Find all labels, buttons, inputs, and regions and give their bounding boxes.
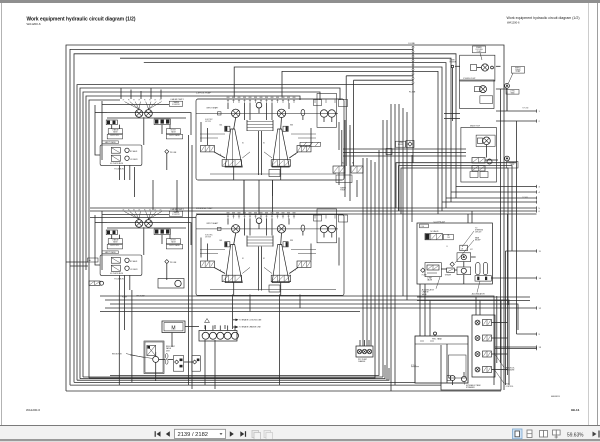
wire cluster left stub 1 <box>66 261 88 263</box>
node P3 group1 <box>165 150 169 154</box>
valve unit bottom 1 <box>173 356 183 372</box>
label safety valve group2 <box>102 251 118 254</box>
wire top bus 2 <box>70 49 413 385</box>
wire drive shaft hoist <box>196 112 338 114</box>
wire bottom bus 1 <box>66 390 501 392</box>
wire mid vertical 2 <box>366 158 368 346</box>
svg-text:59.63%: 59.63% <box>567 432 584 438</box>
wire low bus 1 <box>100 296 494 385</box>
pump bottom small <box>450 376 455 381</box>
valve block sub group2 <box>100 255 142 275</box>
pump fan A steering <box>320 225 327 232</box>
wire top bus 1 <box>66 45 504 391</box>
toolbar last page button <box>240 431 246 437</box>
wire emerg down <box>506 92 508 112</box>
wire rb3 feed 2 <box>343 152 466 154</box>
wire right vert 5 <box>507 214 509 375</box>
wire right tick 6 <box>442 201 537 203</box>
toolbar next page button <box>230 431 234 437</box>
solenoid valve left group2 <box>106 230 117 235</box>
wire col out 5 <box>413 71 438 214</box>
wire low bus 2 <box>105 300 509 385</box>
wire right vert 8 <box>505 251 507 385</box>
wire right tick 7 <box>506 250 537 252</box>
label box left 2 group2 <box>107 244 122 249</box>
wire rail upper group1 <box>107 112 186 114</box>
spool right hoist <box>297 146 311 152</box>
block brake cooling <box>460 55 495 81</box>
wire col out 2 <box>413 58 451 202</box>
valve filter spool <box>147 345 156 355</box>
zoom dropdown partial <box>593 432 597 437</box>
spool left steering <box>201 261 215 267</box>
filter circle <box>153 356 159 362</box>
wire fitting risers <box>120 88 122 99</box>
wire steer drop 4 <box>299 295 301 309</box>
wire tick line B <box>90 210 537 212</box>
node diamond ps1 <box>450 262 454 266</box>
wire gap vert 1 <box>152 180 154 210</box>
wire bottom frame <box>441 300 501 390</box>
wire col out 1 <box>413 54 456 198</box>
box center bottom steering <box>269 285 280 292</box>
wire unit3 <box>485 159 498 161</box>
pump fan B steering <box>328 225 335 232</box>
label to hyd tank <box>506 90 519 95</box>
wire bottom bus 3 <box>74 381 415 383</box>
pump housing tall steering <box>317 209 337 243</box>
valve cyl2 hoist <box>283 126 288 131</box>
wire left stair 4 <box>89 100 120 378</box>
wire steer drop 1 <box>232 295 234 330</box>
frame PS-617 <box>417 223 492 284</box>
wire center ladder steering <box>246 236 248 247</box>
wire bottom bus 8 <box>89 360 375 378</box>
valve bottom B hoist <box>271 160 290 167</box>
valve block sub group1 <box>100 145 142 165</box>
accumulator base <box>475 276 491 282</box>
box LS <box>460 245 468 251</box>
pump steering unit <box>480 86 487 93</box>
block pump unit 3 <box>461 128 497 183</box>
tank hydraulic <box>415 336 468 383</box>
cylinder 1 steering <box>225 245 242 283</box>
pump emergency <box>505 83 510 88</box>
wire right vert 7 <box>496 296 498 363</box>
toolbar first page button <box>155 431 161 437</box>
fitting row steering <box>227 215 229 219</box>
wire ps internals <box>441 268 446 270</box>
wire group1 extra drop <box>134 167 136 197</box>
wire vert x350 <box>349 125 351 201</box>
wire stack unit 1 <box>492 322 508 324</box>
frame section hoist <box>196 99 344 180</box>
wire rb1 out <box>496 65 501 67</box>
solenoid valve right group2 <box>154 229 170 235</box>
pump stack unit 2 <box>475 336 480 341</box>
label left of cluster E <box>88 258 99 262</box>
wire tick line A <box>90 207 537 209</box>
box below twin <box>336 175 352 183</box>
valve nc <box>425 234 442 240</box>
pump main B steering <box>277 225 285 233</box>
view mode single page selected <box>513 429 523 439</box>
wire right tick 8 <box>491 277 537 279</box>
pump small top hoist <box>256 102 262 108</box>
view mode continuous <box>527 430 532 438</box>
wire vert x407 <box>406 112 408 300</box>
wire right vert 4 <box>500 89 502 363</box>
valve bottom A steering <box>222 275 241 282</box>
wire right tick 2 <box>496 120 537 122</box>
pump P-A group2 <box>135 220 143 228</box>
solenoid valve right group1 <box>154 119 170 125</box>
box center bottom hoist <box>269 170 280 177</box>
wire stack unit 4 <box>492 369 508 371</box>
wire jog 2 <box>399 166 513 251</box>
wire right tick 9 <box>517 333 537 335</box>
wire cluster left stub 2 <box>70 265 88 267</box>
wire bottom bus 7 <box>110 362 379 375</box>
valve bottom A hoist <box>222 160 241 167</box>
valve twin spool A <box>333 166 345 173</box>
toolbar prev page button <box>166 431 170 437</box>
wire filter <box>130 355 153 359</box>
pump main A steering <box>232 225 240 233</box>
wire center ladder hoist <box>246 120 248 131</box>
wire top bus 5 <box>144 62 413 64</box>
wire low bus extra 1 <box>100 311 360 313</box>
solenoid valve left group1 <box>106 120 117 125</box>
valve left of cluster E <box>89 281 100 285</box>
label box right 1 group2 <box>166 239 180 244</box>
label box left 1 group2 <box>108 239 122 244</box>
wire bottom bus 4 <box>77 368 389 380</box>
label brake cooling pump <box>473 46 486 53</box>
wire low tick 12 <box>105 307 537 309</box>
pump brake cooling <box>481 64 488 71</box>
label box right 2 group1 <box>166 134 182 139</box>
pump P-B group2 <box>145 220 153 228</box>
wire vert x345 <box>344 120 346 197</box>
valve cyl1 hoist <box>225 126 230 131</box>
wire top bus 8 <box>346 75 413 77</box>
wire mid bus 1 <box>90 217 196 219</box>
manifold brake circles <box>199 331 237 342</box>
wire rail lower group1 <box>107 117 186 119</box>
wire rail upper group2 <box>107 222 186 224</box>
valve unit3 b <box>472 166 485 172</box>
wire manifold feeds <box>204 325 206 329</box>
wire vert 188 <box>188 135 190 385</box>
tank strainer <box>461 376 466 381</box>
node P3 group2 <box>165 260 169 264</box>
wire stack unit 2 <box>492 337 508 339</box>
filter ovals <box>165 354 168 359</box>
wire ppc feeds <box>359 340 361 346</box>
wire drive shaft steering <box>196 228 338 230</box>
wire group2 drops <box>118 290 120 385</box>
cylinder 2 hoist <box>272 129 289 167</box>
label box left 2 group1 <box>107 134 122 139</box>
toolbar prev view icon <box>252 431 261 440</box>
pump stack unit 3 <box>475 352 480 357</box>
wire tick line C <box>196 213 537 215</box>
wire internals hoist <box>234 118 236 130</box>
wire sec steer up <box>243 196 245 215</box>
wire ps top stub 1 <box>467 214 469 223</box>
wire mid vertical 6 <box>382 120 384 377</box>
wire right tick 4 <box>451 191 537 193</box>
toolbar next view icon <box>264 431 273 440</box>
wire right tick 5 <box>446 197 537 199</box>
wire left stair 1 <box>80 88 340 379</box>
wire stack unit 3 <box>492 353 508 355</box>
wire col out 3 <box>413 63 446 208</box>
block steering pump unit <box>460 80 494 109</box>
gauge box 1 <box>457 253 471 262</box>
wire rb3 feed 1 <box>343 148 466 150</box>
pump oval hoist <box>301 109 305 115</box>
wire below ps <box>417 296 530 298</box>
valve bottom B steering <box>271 275 290 282</box>
label safety valve group1 <box>102 141 118 144</box>
wire top bus 9 <box>354 79 414 81</box>
box top right steering <box>314 215 322 221</box>
wire manifold stubs <box>205 326 207 331</box>
wire gap vert 4 <box>272 180 274 215</box>
valve cyl2 steering <box>283 242 288 247</box>
valve cyl1 steering <box>225 242 230 247</box>
wire right tick 11 <box>495 348 537 350</box>
wire mid vertical 9 <box>394 104 396 385</box>
valve T-line relief <box>406 141 414 148</box>
gauge box 2 <box>457 267 471 275</box>
pump main B hoist <box>277 109 285 117</box>
sub block left <box>425 263 441 277</box>
valve unit bottom 2 <box>192 356 201 372</box>
wire top bus 6 <box>234 67 413 98</box>
frame bottom right stack <box>472 315 495 377</box>
wire vert ps-tank 3 <box>429 301 431 337</box>
wire right tick 1 <box>496 110 537 112</box>
wire internals steering <box>234 233 236 245</box>
hatch bar mid <box>300 142 321 146</box>
wire twin feeds <box>341 130 343 166</box>
wire bottom bus 6 <box>83 376 383 378</box>
wire mid vertical 4 <box>374 162 376 360</box>
pump housing tall <box>317 94 337 128</box>
valve small ps <box>447 268 455 272</box>
cylinder 1 hoist <box>225 129 242 167</box>
pump fan B hoist <box>328 110 335 117</box>
wire internals group1 <box>101 101 103 160</box>
cylinder 2 steering <box>272 245 289 283</box>
wire vert x399 <box>398 104 400 211</box>
wire mid vertical 5 <box>378 150 380 362</box>
wire vert 192 <box>191 145 193 389</box>
wire tline ext <box>411 155 413 222</box>
wire sec hoist drops <box>243 180 245 196</box>
wire internals group2 <box>101 211 103 270</box>
wire top bus 4 <box>120 57 413 59</box>
view mode two page continuous <box>553 430 561 439</box>
wire rb2 out <box>496 89 507 111</box>
toolbar page field <box>175 429 226 438</box>
wire motor <box>185 326 199 328</box>
wire jog 1 <box>396 163 517 208</box>
wire jog 3 <box>401 168 508 305</box>
wire bottom bus 2 <box>70 384 441 386</box>
wire vert ps-tank 2 <box>424 284 426 336</box>
label box right 2 group2 <box>166 244 182 249</box>
wire mid vertical 7 <box>386 120 388 380</box>
view mode two page <box>540 431 548 438</box>
wire ps top stub 2 <box>471 211 473 223</box>
label box right 1 group1 <box>166 129 180 134</box>
wire right col extra <box>444 113 460 115</box>
wire top bus 3 <box>74 54 413 383</box>
label box charge group2 <box>169 211 182 216</box>
wire low bus 3 <box>110 304 518 330</box>
wire stack feeds <box>475 297 477 315</box>
wire col out 4 <box>413 67 442 211</box>
fitting row hoist <box>227 100 229 104</box>
pump fan A hoist <box>320 110 327 117</box>
pump stack unit 4 <box>475 367 480 372</box>
node diamond ps2 <box>421 268 425 272</box>
pump stack unit 1 <box>475 320 480 325</box>
valve unit3 a <box>472 158 485 164</box>
wire steer drop 2 <box>279 295 281 386</box>
spool left hoist <box>201 146 215 152</box>
wire mid vertical 1 <box>362 158 364 346</box>
pump oval steering <box>301 225 305 231</box>
frame filter unit <box>144 341 164 374</box>
spool right steering <box>297 261 311 267</box>
wire gap vert 3 <box>243 180 245 215</box>
wire engine link <box>455 65 460 67</box>
block aux motor <box>158 279 184 289</box>
wire rb3 feed 3 <box>343 155 466 157</box>
wire vert ps-tank 1 <box>419 284 421 336</box>
box top right hoist <box>314 100 322 106</box>
wire vert x403 <box>402 108 404 296</box>
wire right tick 3 <box>456 186 537 188</box>
pump P-B group1 <box>145 110 153 118</box>
wire rail lower group2 <box>107 227 186 229</box>
tank internals <box>446 344 448 383</box>
wire mid vertical 3 <box>370 160 372 346</box>
pump small top steering <box>256 218 262 224</box>
pump main A hoist <box>232 109 240 117</box>
wire steer drop 3 <box>249 295 251 312</box>
wire right tick 10 <box>495 346 537 348</box>
wire left stair 2 <box>83 92 320 377</box>
wire right vert 6 <box>516 121 518 334</box>
tank breather <box>434 332 437 335</box>
wire bottom bus 5 <box>80 365 385 379</box>
label emergency steering pump <box>512 67 525 74</box>
svg-text:2139 / 2182: 2139 / 2182 <box>178 432 209 438</box>
boxes unit3 low <box>470 172 478 178</box>
wire mid vertical 8 <box>390 104 392 391</box>
accumulator pair <box>476 263 480 275</box>
pump emergency 2 <box>505 156 510 161</box>
wire left stair 3 <box>86 96 300 270</box>
wire gap vert 2 <box>176 180 178 212</box>
pump unit3 <box>476 135 495 146</box>
box c16 <box>420 224 429 228</box>
label box left 1 group1 <box>108 129 122 134</box>
frame section steering <box>196 215 344 296</box>
wire top bus 10 <box>77 85 413 381</box>
valve twin spool B <box>351 166 363 173</box>
wire top bus 7 <box>282 71 413 98</box>
label box charge group1 <box>169 101 182 106</box>
box motor M <box>162 321 185 333</box>
label oil box <box>444 234 454 240</box>
pump PPC trio <box>356 346 373 357</box>
pump P-A group1 <box>135 110 143 118</box>
